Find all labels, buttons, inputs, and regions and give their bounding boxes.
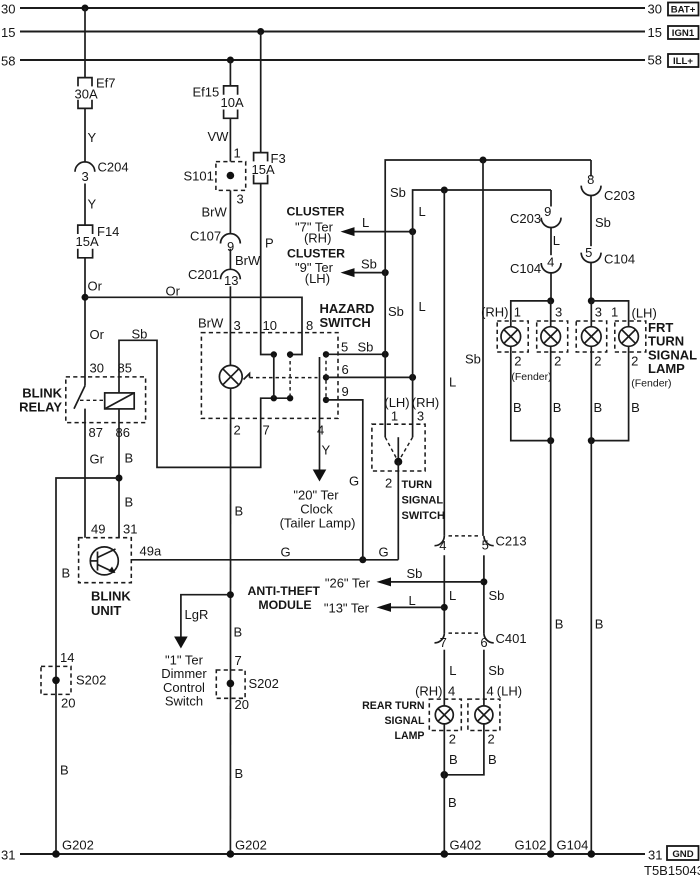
arrow wire to anti-theft 26 Ter, colour Sb [377, 566, 484, 587]
svg-text:2: 2 [594, 353, 601, 368]
svg-text:L: L [409, 593, 416, 608]
front lamp RH wire stubs [550, 301, 552, 327]
wire colour labels B under front lamps [513, 400, 640, 415]
component label FRT TURN SIGNAL LAMP [648, 320, 697, 376]
wire ground run to G104, colour B [591, 346, 603, 854]
svg-text:SWITCH: SWITCH [320, 315, 371, 330]
wire hazard pin 5 to Sb vertical [326, 340, 385, 355]
svg-text:C401: C401 [496, 631, 527, 646]
svg-text:Sb: Sb [390, 185, 406, 200]
svg-text:G202: G202 [62, 838, 94, 853]
wire relay pin 86 to blink unit pin 31, colour B [119, 409, 133, 538]
arrow wire to cluster 9 Ter, colour Sb [341, 257, 386, 278]
hazard switch alternate contact dashed [289, 355, 291, 399]
component label BLINK UNIT [91, 589, 131, 619]
svg-text:"20" Ter: "20" Ter [293, 488, 339, 503]
connector C204 pin 3 [75, 160, 129, 185]
svg-text:4: 4 [317, 422, 324, 437]
svg-text:CLUSTER: CLUSTER [287, 246, 345, 260]
fuse Ef15 10A [224, 86, 238, 118]
svg-text:F14: F14 [97, 224, 119, 239]
net label 30 left [1, 2, 15, 17]
svg-text:1: 1 [611, 305, 618, 320]
turn signal switch dashed box [372, 424, 425, 471]
splice S202 mid [216, 670, 279, 698]
pin label 3 hazard [234, 318, 241, 333]
svg-text:G: G [281, 545, 291, 560]
junction pin5/Sb vertical [382, 351, 389, 358]
svg-text:9: 9 [544, 204, 551, 219]
junction 26 Ter tap [480, 578, 487, 585]
wire colour label B above S202 [234, 625, 243, 640]
svg-text:S202: S202 [249, 676, 279, 691]
svg-text:BrW: BrW [198, 316, 224, 331]
splice S101 [184, 162, 246, 191]
value label 15A [76, 234, 99, 249]
destination text 13 Ter [324, 601, 370, 616]
svg-text:B: B [235, 504, 244, 519]
svg-text:GND: GND [672, 849, 693, 860]
svg-text:B: B [513, 400, 522, 415]
wire hazard pin 9 to 49a junction, colour G [326, 384, 363, 560]
hazard switch dashed box [201, 333, 338, 419]
svg-text:7: 7 [440, 635, 447, 650]
svg-text:8: 8 [306, 318, 313, 333]
rear turn signal lamp RH box [429, 699, 461, 730]
net label 58 right [648, 53, 662, 68]
pin label (RH) 3 [412, 395, 439, 424]
wire ground run to G102, colour B [551, 346, 564, 854]
junction 13 Ter tap [441, 604, 448, 611]
net box ILL+ [668, 54, 699, 67]
svg-text:2: 2 [385, 476, 392, 491]
svg-text:B: B [125, 451, 134, 466]
svg-text:SIGNAL: SIGNAL [402, 495, 444, 507]
svg-text:L: L [419, 204, 426, 219]
svg-text:(RH): (RH) [304, 230, 331, 245]
arrow wire to dimmer control switch, colour LgR [174, 595, 230, 649]
svg-text:Or: Or [88, 279, 103, 294]
value label 30A [75, 87, 98, 102]
svg-text:G: G [379, 545, 389, 560]
svg-text:G: G [349, 474, 359, 489]
svg-text:Sb: Sb [407, 566, 423, 581]
wire rear lamp RH to G402, colour B [444, 724, 456, 854]
svg-text:IGN1: IGN1 [672, 28, 695, 39]
splice S202 left [41, 666, 106, 694]
svg-text:L: L [362, 215, 369, 230]
svg-text:"13" Ter: "13" Ter [324, 601, 370, 616]
svg-text:(Fender): (Fender) [511, 371, 551, 383]
svg-text:Clock: Clock [300, 502, 333, 517]
svg-text:L: L [449, 375, 456, 390]
svg-text:MODULE: MODULE [258, 598, 311, 612]
junction LgR tap on dimmer feed [227, 591, 234, 598]
svg-text:Or: Or [90, 327, 105, 342]
svg-text:30: 30 [1, 2, 15, 17]
location label (Fender) RH [511, 371, 551, 383]
svg-text:30: 30 [648, 2, 662, 17]
wire L vertical hazard6 to TSS pin3 and top link [413, 190, 551, 437]
wire C213-5 to C401-6, colour Sb [484, 555, 505, 633]
wire top link to C203 pin 8 [590, 160, 592, 177]
wire top link to C203 pin 9 [550, 190, 552, 207]
blink unit U dashed box [79, 538, 132, 583]
svg-text:B: B [594, 400, 603, 415]
value label 10A [221, 95, 244, 110]
svg-text:31: 31 [648, 848, 662, 863]
net label 58 left [1, 54, 15, 69]
front turn signal lamp RH box [537, 321, 568, 352]
connector C203 pin 8 [581, 172, 635, 203]
svg-text:3: 3 [555, 305, 562, 320]
svg-text:15: 15 [1, 25, 15, 40]
wire rear lamp LH ground join [444, 724, 484, 775]
relay coil 85-86 [105, 393, 135, 409]
arrow wire to anti-theft 13 Ter, colour L [377, 593, 445, 612]
wire LH pair top link [591, 301, 628, 327]
svg-text:TURN: TURN [402, 479, 433, 491]
net label 15 left [1, 25, 15, 40]
svg-text:Y: Y [88, 197, 97, 212]
pin label 8 [306, 318, 313, 333]
connector C104 pin 4 [510, 254, 561, 276]
pin label (LH) 1 [384, 395, 409, 424]
wire hazard lamp to pin 2 and ground run G202, colour B [230, 388, 243, 854]
svg-text:B: B [488, 752, 497, 767]
svg-text:3: 3 [417, 409, 424, 424]
pin label 14 [60, 650, 74, 665]
svg-text:ILL+: ILL+ [673, 56, 693, 67]
hazard right contacts 5 6 9 [323, 351, 329, 403]
svg-text:G402: G402 [450, 838, 482, 853]
svg-text:SWITCH: SWITCH [402, 510, 445, 522]
wire front lamp LH fender down-join [591, 346, 628, 440]
svg-text:B: B [235, 766, 244, 781]
pin labels rear lamps (RH) 4 / 4 (LH) [415, 684, 522, 699]
fuse F3 15A [254, 153, 268, 184]
pin label 3 [237, 191, 244, 206]
pin label 7 hazard [263, 422, 270, 437]
wire L drop to C213 pin 4 [444, 190, 456, 536]
junction Or node [82, 294, 89, 301]
svg-text:2: 2 [631, 353, 638, 368]
svg-text:15A: 15A [76, 234, 99, 249]
junction bus30/Ef7 [82, 5, 89, 12]
pin label 2 hazard [234, 422, 241, 437]
svg-text:Sb: Sb [388, 304, 404, 319]
pin label 30 [90, 361, 104, 376]
wire colour label G on 49a [281, 545, 291, 560]
net box BAT+ [668, 3, 699, 16]
junction cluster7/L vertical [409, 228, 416, 235]
svg-text:3: 3 [595, 305, 602, 320]
pin label 10 [263, 318, 277, 333]
wire Sb drop to C213 pin 5 [465, 160, 483, 536]
wire RH pair top link [511, 301, 551, 327]
svg-text:Y: Y [88, 130, 97, 145]
component label BLINK RELAY [19, 386, 62, 415]
svg-text:58: 58 [1, 54, 15, 69]
fuse Ef7 30A [78, 78, 92, 109]
wire C107 to C201, colour BrW [230, 249, 261, 270]
bus 15 [20, 31, 645, 33]
rear lamp LH bulb [475, 706, 493, 724]
pin label 1 [234, 145, 241, 160]
svg-text:B: B [60, 763, 69, 778]
svg-text:Dimmer: Dimmer [161, 666, 207, 681]
svg-text:1: 1 [234, 145, 241, 160]
svg-text:9: 9 [342, 384, 349, 399]
value label F14 [97, 224, 119, 239]
hazard switch right pole bar [319, 357, 321, 396]
hazard indicator lamp [219, 365, 242, 388]
junction 49a / pin9 drop [359, 556, 366, 563]
svg-text:14: 14 [60, 650, 74, 665]
svg-text:31: 31 [1, 848, 15, 863]
relay switch contact 30-87 [74, 386, 85, 409]
pin label 87 [89, 425, 103, 440]
front lamp LH bulb [582, 327, 602, 347]
svg-text:6: 6 [480, 635, 487, 650]
drawing number T5B15043 [644, 863, 700, 878]
destination text 26 Ter [325, 576, 371, 591]
svg-text:VW: VW [208, 129, 230, 144]
wire hazard pin 6 to L vertical [326, 362, 413, 377]
pin label 4 hazard [317, 422, 324, 437]
svg-text:ANTI-THEFT: ANTI-THEFT [247, 584, 320, 598]
svg-text:C104: C104 [604, 252, 635, 267]
bus 31 ground [20, 853, 645, 855]
destination text CLUSTER 7 Ter (RH) [286, 204, 344, 245]
connector C201 pin 13 [188, 267, 240, 288]
pin label 20 [235, 697, 249, 712]
svg-text:58: 58 [648, 53, 662, 68]
wire relay pin 87 to blink unit pin 49, colour Gr [85, 409, 105, 538]
svg-text:30A: 30A [75, 87, 98, 102]
wire bus58 to fuse Ef15 [229, 60, 231, 86]
svg-text:L: L [449, 663, 456, 678]
wire colour label B lower mid [235, 766, 244, 781]
svg-text:49a: 49a [140, 544, 162, 559]
svg-text:8: 8 [587, 172, 594, 187]
front lamp RH bulb [541, 327, 561, 347]
svg-text:6: 6 [342, 362, 349, 377]
svg-text:S101: S101 [184, 168, 214, 183]
svg-text:UNIT: UNIT [91, 603, 121, 618]
wire C204 to fuse F14, colour Y [85, 184, 97, 226]
component label REAR TURN SIGNAL LAMP [362, 700, 425, 742]
value label F3 [271, 151, 286, 166]
svg-text:REAR TURN: REAR TURN [362, 700, 424, 712]
svg-text:CLUSTER: CLUSTER [286, 204, 344, 218]
wire C401-6 to rear lamp LH, colour Sb [484, 650, 504, 707]
rear lamp RH bulb [435, 706, 453, 724]
svg-text:(Fender): (Fender) [631, 378, 671, 390]
hazard actuator dashed link [250, 377, 318, 379]
connector C401 pins 7 6 [435, 631, 527, 650]
connector C104 pin 5 [581, 245, 635, 267]
svg-text:Sb: Sb [358, 340, 374, 355]
value label Ef15 [193, 85, 220, 100]
svg-text:B: B [553, 400, 562, 415]
svg-text:B: B [595, 617, 604, 632]
wire C201 to hazard pin 3, colour BrW [198, 286, 230, 365]
net label 31 left [1, 848, 15, 863]
svg-text:C107: C107 [190, 229, 221, 244]
junction B node at pin 86 wire [116, 475, 123, 482]
front lamp LH fender bulb [619, 327, 639, 347]
net box GND [667, 846, 699, 860]
junction pin6/L vertical [409, 374, 416, 381]
net label 15 right [648, 25, 662, 40]
front lamp RH fender bulb [501, 327, 521, 347]
svg-text:BrW: BrW [235, 253, 261, 268]
svg-text:Y: Y [322, 443, 331, 458]
junction bus15/F3 [257, 28, 264, 35]
junction front LH lamps feed [588, 297, 595, 304]
wire Or branch to hazard pin 8 [85, 284, 302, 355]
svg-text:BAT+: BAT+ [671, 5, 696, 16]
svg-text:87: 87 [89, 425, 103, 440]
svg-text:G104: G104 [557, 838, 589, 853]
svg-text:L: L [449, 588, 456, 603]
svg-text:B: B [234, 625, 243, 640]
svg-text:(LH): (LH) [632, 305, 657, 320]
junction bus58/Ef15 [227, 57, 234, 64]
wire Ef7 to C204, colour Y [85, 108, 97, 162]
svg-text:20: 20 [235, 697, 249, 712]
ground G402 [441, 838, 482, 858]
svg-text:LgR: LgR [185, 607, 209, 622]
wire hazard pin 4 arrow to clock, colour Y [313, 396, 331, 482]
svg-text:Ef7: Ef7 [96, 76, 116, 91]
wire F3 to hazard pin 10, colour P [261, 184, 274, 355]
wire C203-8 to C104-5, colour Sb [591, 196, 611, 247]
junction front RH lamps feed [547, 297, 554, 304]
bus 58 [20, 59, 645, 61]
svg-text:7: 7 [235, 653, 242, 668]
relay actuator dashed link [80, 399, 105, 401]
wire B branch to left ground run [56, 478, 119, 854]
svg-text:C203: C203 [604, 188, 635, 203]
svg-text:10: 10 [263, 318, 277, 333]
svg-text:1: 1 [391, 409, 398, 424]
svg-text:B: B [125, 495, 134, 510]
connector C107 pin 9 [190, 229, 240, 255]
svg-text:FRT: FRT [648, 320, 673, 335]
destination text CLUSTER 9 Ter (LH) [287, 246, 345, 286]
wire TSS pin 2 to 49a [397, 462, 399, 560]
arrow wire to cluster 7 Ter, colour L [341, 215, 413, 236]
component label ANTI-THEFT MODULE [247, 584, 320, 612]
ground G202 mid [227, 838, 267, 858]
pin label 7 [235, 653, 242, 668]
wire F14 to relay pin 30, colour Or [85, 258, 105, 386]
svg-text:49: 49 [91, 522, 105, 537]
svg-text:C204: C204 [98, 160, 129, 175]
svg-text:15A: 15A [252, 162, 275, 177]
svg-text:2: 2 [554, 353, 561, 368]
svg-text:"26" Ter: "26" Ter [325, 576, 371, 591]
wire 49a from blink unit to turn signal switch pin 2 [131, 544, 398, 560]
junction LH pair ground join [588, 437, 595, 444]
svg-text:Gr: Gr [90, 452, 105, 467]
svg-text:BLINK: BLINK [91, 589, 131, 604]
front turn signal lamp RH fender box [497, 321, 528, 352]
svg-text:Or: Or [166, 284, 181, 299]
hazard switch contact pole 10-7 [271, 351, 294, 401]
svg-text:Ef15: Ef15 [193, 85, 220, 100]
svg-text:(RH): (RH) [481, 305, 508, 320]
connector C213 pins 4 5 [435, 533, 527, 553]
pin label 49 [91, 522, 105, 537]
wire S101 to C107, colour BrW [202, 190, 231, 233]
svg-text:30: 30 [90, 361, 104, 376]
svg-text:Sb: Sb [489, 588, 505, 603]
svg-text:Sb: Sb [465, 351, 481, 366]
pin labels 2 below rear lamps [449, 732, 495, 747]
svg-text:SIGNAL: SIGNAL [384, 715, 425, 727]
wire front lamp RH fender down-join [511, 346, 551, 440]
svg-text:L: L [419, 299, 426, 314]
svg-text:4: 4 [487, 684, 494, 699]
svg-text:2: 2 [488, 732, 495, 747]
svg-text:B: B [449, 752, 458, 767]
svg-text:4: 4 [547, 254, 554, 269]
wire relay pin 85 to hazard pin 7, colour Sb [119, 327, 290, 468]
svg-text:B: B [448, 795, 457, 810]
svg-text:P: P [265, 236, 274, 251]
pin label 31 [123, 522, 137, 537]
svg-text:LAMP: LAMP [394, 730, 424, 742]
svg-text:G202: G202 [235, 838, 267, 853]
net label 31 right [648, 848, 662, 863]
pin label 86 [116, 425, 130, 440]
blink relay K dashed box [66, 377, 146, 423]
svg-text:Sb: Sb [132, 327, 148, 342]
svg-text:3: 3 [82, 169, 89, 184]
svg-text:B: B [555, 617, 564, 632]
svg-text:1: 1 [514, 305, 521, 320]
pin label 20 [61, 696, 75, 711]
svg-text:RELAY: RELAY [19, 400, 62, 415]
svg-text:2: 2 [449, 732, 456, 747]
svg-text:5: 5 [341, 340, 348, 355]
ground G102 [515, 838, 555, 858]
destination text 20 Ter Clock (Tailer Lamp) [280, 488, 356, 531]
wire colour label G on 49a right [379, 545, 389, 560]
front turn signal lamp LH box [576, 321, 607, 352]
value label Ef7 [96, 76, 116, 91]
svg-text:(RH): (RH) [415, 684, 442, 699]
svg-text:LAMP: LAMP [648, 361, 685, 376]
svg-text:13: 13 [224, 273, 238, 288]
svg-text:3: 3 [234, 318, 241, 333]
junction Sb top link [480, 157, 487, 164]
transistor symbol in blink unit [90, 547, 118, 575]
svg-text:2: 2 [234, 422, 241, 437]
hazard lamp actuator tick [244, 374, 250, 380]
svg-text:Sb: Sb [488, 663, 504, 678]
wire C401-7 to rear lamp RH, colour L [444, 650, 456, 706]
wire Ef15 to S101, colour VW [208, 118, 231, 161]
svg-text:BLINK: BLINK [22, 386, 62, 401]
svg-text:2: 2 [514, 353, 521, 368]
ground G202 left [52, 838, 94, 858]
pin labels 2 below front lamps [514, 353, 638, 368]
svg-text:C213: C213 [496, 533, 527, 548]
